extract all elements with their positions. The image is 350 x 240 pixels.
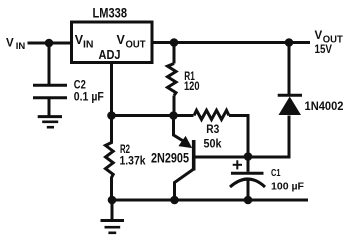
collector lead (175, 169, 194, 200)
wire R3 down to base node (247, 116, 248, 157)
terminal label V_IN (6, 37, 25, 52)
junction C1/rail (244, 196, 253, 205)
svg-text:C1: C1 (271, 167, 281, 179)
svg-text:2N2905: 2N2905 (151, 150, 189, 166)
wire C2 bottom lead (48, 98, 51, 116)
junction base node (244, 152, 253, 161)
label R3 50k (204, 124, 223, 151)
ground (main) (101, 221, 125, 233)
junction R2/ground (108, 196, 117, 205)
resistor R2 (106, 116, 114, 201)
svg-text:120: 120 (184, 81, 200, 93)
wire ADJ pin (110, 63, 113, 116)
junction ADJ/R2 (107, 111, 116, 120)
svg-text:IN: IN (83, 39, 94, 51)
svg-text:50k: 50k (204, 139, 223, 151)
svg-text:C2: C2 (74, 80, 86, 92)
base lead (194, 156, 248, 159)
resistor R3 (174, 110, 249, 119)
plus sign C1 polarity (233, 160, 242, 169)
svg-text:R3: R3 (206, 124, 219, 136)
junction collector/rail (170, 196, 179, 205)
svg-text:100 µF: 100 µF (271, 181, 305, 193)
op-amp/regulator U1 LM338 box (72, 22, 153, 63)
junction input node (45, 39, 54, 48)
svg-text:OUT: OUT (126, 40, 146, 51)
capacitor C2 (33, 85, 67, 97)
base bar (192, 140, 196, 171)
label R1 120 (184, 71, 200, 93)
pin label VOUT (117, 33, 146, 51)
svg-text:R2: R2 (120, 144, 130, 156)
wire base node to diode (248, 116, 289, 158)
junction rail/diode (285, 38, 294, 47)
emitter arrowhead (178, 136, 192, 148)
label C2 value (74, 80, 104, 104)
label C1 value (271, 167, 305, 193)
junction node A (R1/R3/emitter) (169, 111, 178, 120)
terminal label V_OUT 15V (315, 30, 343, 56)
pin label VIN (75, 33, 94, 51)
ground (below C2) (38, 117, 62, 128)
svg-text:V: V (6, 37, 14, 49)
label R2 1.37k (120, 144, 147, 167)
svg-text:V: V (117, 33, 126, 47)
svg-text:0.1 µF: 0.1 µF (74, 92, 104, 104)
svg-text:1.37k: 1.37k (120, 155, 147, 167)
svg-text:IN: IN (16, 41, 26, 52)
svg-text:1N4002: 1N4002 (305, 101, 344, 113)
capacitor C1 (electrolytic) (230, 157, 265, 201)
wire ground stub (111, 200, 114, 219)
resistor R1 (168, 43, 177, 116)
transistor Q1 2N2905 (174, 116, 249, 201)
wire ADJ to node A (112, 114, 174, 117)
wire input (28, 42, 71, 45)
wire ground rail (112, 199, 309, 202)
junction rail/R1 (170, 38, 179, 47)
svg-text:ADJ: ADJ (99, 47, 121, 62)
wire output rail (153, 41, 311, 44)
diode D1 1N4002 (278, 43, 302, 116)
svg-text:15V: 15V (315, 44, 333, 56)
svg-text:V: V (315, 30, 323, 42)
emitter lead (174, 116, 187, 144)
svg-text:LM338: LM338 (93, 5, 128, 21)
wire C2 top lead (48, 43, 51, 84)
